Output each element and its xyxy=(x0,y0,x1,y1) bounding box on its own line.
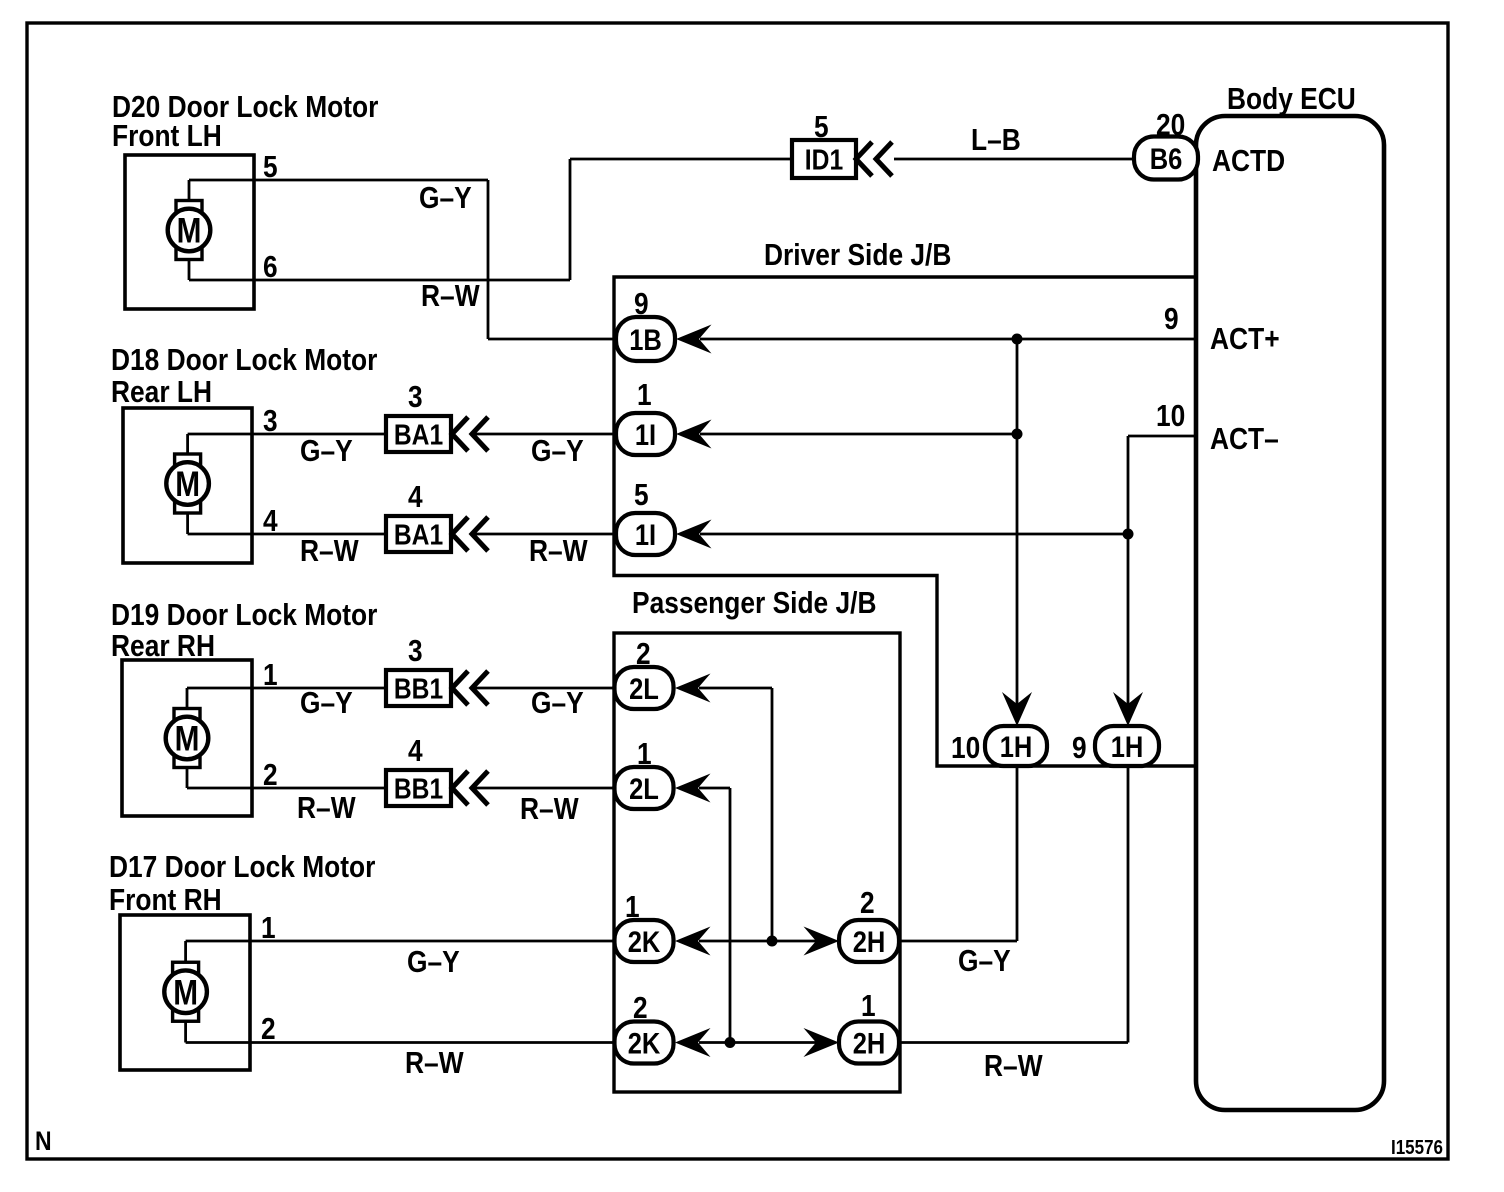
wire D18 pin3 G-Y xyxy=(188,433,386,436)
wire 2L upper to branch xyxy=(699,687,772,690)
svg-text:G–Y: G–Y xyxy=(531,433,584,468)
svg-text:1: 1 xyxy=(861,988,876,1023)
svg-text:G–Y: G–Y xyxy=(407,944,460,979)
arrowhead 2K upper arrow xyxy=(675,927,711,956)
arrows ID1 arrows xyxy=(856,142,892,176)
svg-text:2H: 2H xyxy=(853,926,886,959)
svg-text:M: M xyxy=(175,465,200,504)
arrowhead 1I upper arrow xyxy=(676,420,712,449)
svg-text:2L: 2L xyxy=(629,773,659,806)
arrowhead 2L upper arrow xyxy=(675,674,711,703)
svg-text:2K: 2K xyxy=(628,926,661,959)
svg-text:9: 9 xyxy=(1164,301,1179,336)
svg-text:2K: 2K xyxy=(628,1028,661,1061)
wire ACT+ vertical to 1H lower xyxy=(1016,434,1019,705)
connector 1B xyxy=(616,317,675,361)
svg-text:Driver Side J/B: Driver Side J/B xyxy=(764,237,951,272)
connector 2L upper xyxy=(615,667,674,709)
wire 1I lower to ACT- branch xyxy=(700,533,1128,536)
wire D19 pin1 G-Y xyxy=(187,687,386,690)
svg-text:Rear LH: Rear LH xyxy=(111,374,212,409)
svg-text:R–W: R–W xyxy=(421,278,480,313)
junction block Passenger Side J/B xyxy=(614,633,900,1092)
arrowhead 1I lower arrow xyxy=(676,520,712,549)
wire 1H right down to 2H R-W xyxy=(1127,766,1130,1043)
svg-text:ID1: ID1 xyxy=(805,145,843,177)
wire L-B wire xyxy=(894,158,1135,161)
door lock motor D20 xyxy=(125,155,254,309)
svg-text:2: 2 xyxy=(636,636,651,671)
svg-text:G–Y: G–Y xyxy=(419,180,472,215)
svg-text:R–W: R–W xyxy=(520,791,579,826)
svg-text:G–Y: G–Y xyxy=(300,433,353,468)
svg-text:M: M xyxy=(177,212,202,251)
svg-text:G–Y: G–Y xyxy=(958,943,1011,978)
svg-text:BB1: BB1 xyxy=(394,674,443,706)
wire D19 G-Y to 2L xyxy=(470,687,616,690)
arrowhead 2L lower arrow xyxy=(675,774,711,803)
svg-text:M: M xyxy=(173,973,198,1012)
svg-text:2: 2 xyxy=(261,1011,276,1046)
svg-text:D19 Door Lock Motor: D19 Door Lock Motor xyxy=(111,597,377,632)
wire 1H left down to 2H G-Y xyxy=(1016,766,1019,941)
svg-text:Body ECU: Body ECU xyxy=(1227,81,1356,116)
arrowhead 1H left arrow xyxy=(1002,692,1032,726)
svg-text:R–W: R–W xyxy=(405,1045,464,1080)
svg-text:G–Y: G–Y xyxy=(531,685,584,720)
door lock motor D18 xyxy=(123,408,252,563)
svg-text:Passenger Side J/B: Passenger Side J/B xyxy=(632,585,877,620)
arrowhead 2H upper arrow xyxy=(804,927,840,956)
connector 1H left xyxy=(985,726,1047,766)
svg-text:D18 Door Lock Motor: D18 Door Lock Motor xyxy=(111,342,377,377)
svg-text:1: 1 xyxy=(637,736,652,771)
wire 2H lower R-W xyxy=(899,1041,1128,1044)
connector 2L lower xyxy=(615,767,674,809)
svg-text:D17 Door Lock Motor: D17 Door Lock Motor xyxy=(109,849,375,884)
wire D20 R-W vertical xyxy=(569,159,572,280)
arrowhead 2H lower arrow xyxy=(804,1028,840,1057)
connector box BB1 upper xyxy=(386,670,451,706)
svg-text:1H: 1H xyxy=(1111,731,1144,764)
svg-text:2H: 2H xyxy=(853,1028,886,1061)
wire D17 pin2 R-W xyxy=(186,1041,615,1044)
connector 2K upper xyxy=(615,920,674,962)
arrows BB1 lower arrows xyxy=(452,771,488,805)
wire ACT- stub xyxy=(1128,435,1196,438)
svg-text:Front LH: Front LH xyxy=(112,118,222,153)
wire D18 R-W to 1I xyxy=(470,533,616,536)
svg-text:BA1: BA1 xyxy=(394,520,443,552)
svg-text:1I: 1I xyxy=(635,419,656,452)
connector 2H lower xyxy=(839,1022,899,1064)
junction junction 2L/2K upper xyxy=(767,936,778,947)
wire D20 G-Y vertical xyxy=(487,180,490,339)
wire 2H upper G-Y xyxy=(899,940,1017,943)
svg-text:1: 1 xyxy=(637,377,652,412)
connector 2H upper xyxy=(839,920,899,962)
svg-text:R–W: R–W xyxy=(529,533,588,568)
svg-text:3: 3 xyxy=(408,379,423,414)
svg-text:5: 5 xyxy=(634,477,649,512)
svg-text:M: M xyxy=(175,720,200,759)
wire ACT+ wire xyxy=(700,338,1196,341)
connector B6 xyxy=(1134,137,1198,180)
junction junction 1I lower branch xyxy=(1123,529,1134,540)
door lock motor D19 xyxy=(122,660,252,816)
svg-text:1: 1 xyxy=(625,889,640,924)
wire D19 R-W to 2L xyxy=(470,787,616,790)
wire 1I upper to ACT+ branch xyxy=(700,433,1017,436)
svg-text:9: 9 xyxy=(634,286,649,321)
svg-text:1I: 1I xyxy=(635,519,656,552)
svg-text:N: N xyxy=(35,1126,52,1156)
arrowhead 1B arrow xyxy=(676,325,712,354)
svg-text:L–B: L–B xyxy=(971,122,1021,157)
connector 2K lower xyxy=(615,1022,674,1064)
wire D17 pin1 G-Y xyxy=(186,940,615,943)
svg-text:9: 9 xyxy=(1072,730,1087,765)
svg-text:4: 4 xyxy=(408,733,423,768)
arrows BB1 upper arrows xyxy=(452,671,488,705)
svg-text:1B: 1B xyxy=(629,324,662,357)
connector box BA1 lower xyxy=(386,516,451,552)
svg-text:R–W: R–W xyxy=(297,790,356,825)
wire ACT- vertical to 1H xyxy=(1127,534,1130,705)
connector box BA1 upper xyxy=(386,416,451,452)
svg-text:R–W: R–W xyxy=(300,533,359,568)
wire 2L upper branch vertical xyxy=(771,688,774,941)
Body ECU U1 xyxy=(1196,116,1384,1110)
junction junction 1I upper branch xyxy=(1012,429,1023,440)
svg-text:ACTD: ACTD xyxy=(1212,143,1285,178)
wire 2K upper to 2H xyxy=(699,940,817,943)
wire D18 pin4 R-W xyxy=(188,533,386,536)
wire 2K lower to 2H xyxy=(699,1041,817,1044)
svg-text:I15576: I15576 xyxy=(1391,1137,1443,1159)
door lock motor D17 xyxy=(120,915,250,1070)
wire R-W to ID1 xyxy=(570,158,792,161)
svg-text:BA1: BA1 xyxy=(394,420,443,452)
junction junction 2L/2K lower xyxy=(725,1037,736,1048)
svg-text:R–W: R–W xyxy=(984,1048,1043,1083)
svg-text:2: 2 xyxy=(633,990,648,1025)
wire 2L lower to branch xyxy=(699,787,730,790)
svg-text:Rear RH: Rear RH xyxy=(111,628,215,663)
arrows BA1 lower arrows xyxy=(452,517,488,551)
connector 1I lower xyxy=(616,513,675,555)
wire D20 G-Y to 1B xyxy=(488,338,616,341)
junction junction ACT+ / 1H xyxy=(1012,334,1023,345)
svg-text:G–Y: G–Y xyxy=(300,685,353,720)
arrowhead 2K lower arrow xyxy=(675,1028,711,1057)
svg-text:10: 10 xyxy=(951,730,980,765)
svg-text:ACT–: ACT– xyxy=(1210,421,1279,456)
wire D20 pin6 R-W horizontal xyxy=(189,279,570,282)
svg-text:2L: 2L xyxy=(629,673,659,706)
svg-text:Front RH: Front RH xyxy=(109,882,222,917)
arrows BA1 upper arrows xyxy=(452,417,488,451)
svg-text:5: 5 xyxy=(814,109,829,144)
connector box BB1 lower xyxy=(386,770,451,806)
svg-text:10: 10 xyxy=(1156,398,1185,433)
svg-text:4: 4 xyxy=(408,479,423,514)
wire ACT+ vertical to 1H xyxy=(1016,339,1019,434)
wire 2L lower branch vertical xyxy=(729,788,732,1043)
svg-text:1H: 1H xyxy=(1000,731,1033,764)
svg-text:2: 2 xyxy=(860,885,875,920)
connector 1I upper xyxy=(616,413,675,455)
connector 1H right xyxy=(1095,726,1159,766)
connector box ID1 xyxy=(792,140,856,178)
svg-text:BB1: BB1 xyxy=(394,774,443,806)
wire D18 G-Y to 1I xyxy=(470,433,616,436)
junction block Driver Side J/B xyxy=(614,277,1196,766)
svg-text:B6: B6 xyxy=(1150,143,1183,176)
svg-text:ACT+: ACT+ xyxy=(1210,321,1280,356)
wire D19 pin2 R-W xyxy=(187,787,386,790)
svg-text:3: 3 xyxy=(408,633,423,668)
wire ACT- vertical upper xyxy=(1127,436,1130,534)
arrowhead 1H right arrow xyxy=(1113,692,1143,726)
wire D20 pin5 G-Y horizontal xyxy=(189,179,488,182)
